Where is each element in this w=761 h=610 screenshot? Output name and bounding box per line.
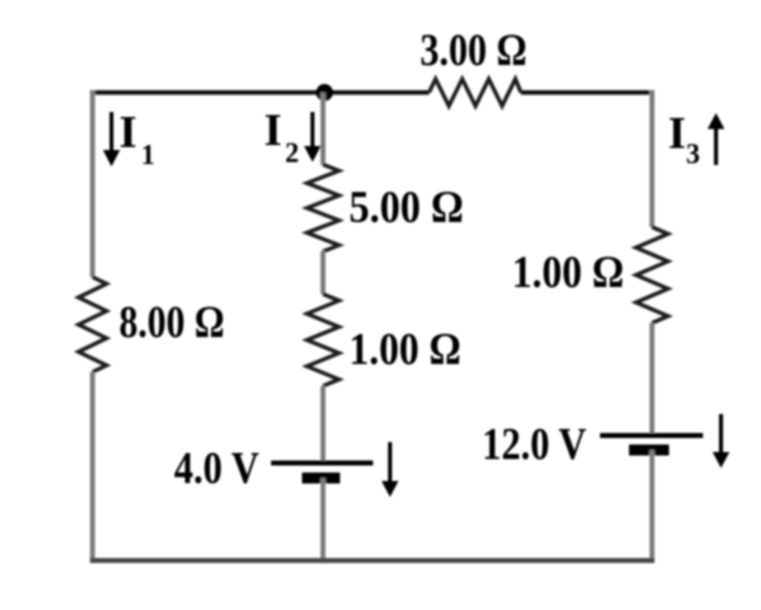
svg-text:I: I — [119, 106, 137, 157]
current direction arrow at battery V2 — [713, 414, 730, 468]
wire right below battery — [650, 450, 655, 561]
svg-text:2: 2 — [285, 138, 299, 169]
current direction arrow at battery V1 — [382, 442, 399, 497]
wire middle between resistors — [321, 251, 326, 294]
wire middle below battery — [321, 478, 326, 563]
resistor 5.00 ohm (middle branch) — [307, 165, 339, 252]
svg-text:I: I — [264, 104, 282, 155]
current arrow I3 — [708, 113, 725, 165]
wire right between resistor and battery — [650, 323, 655, 435]
svg-text:5.00 Ω: 5.00 Ω — [349, 182, 464, 233]
label I1 — [119, 106, 155, 171]
resistor R1 8.00 ohm (left branch) — [79, 277, 107, 372]
svg-text:4.0 V: 4.0 V — [174, 443, 259, 494]
current arrow I1 — [103, 112, 120, 167]
current arrow I2 — [304, 112, 321, 162]
wire middle segment (node to 5 ohm resistor) — [321, 93, 326, 166]
wire right upper segment — [650, 90, 655, 227]
wire middle above battery — [321, 386, 326, 463]
svg-text:3: 3 — [686, 139, 700, 170]
battery V2 12.0 V negative plate — [629, 445, 669, 456]
resistor 1.00 ohm (middle branch) — [307, 294, 339, 386]
resistor 1.00 ohm (right branch) — [636, 227, 668, 323]
label I3 — [668, 107, 700, 170]
svg-text:1: 1 — [141, 140, 155, 171]
wire bottom — [90, 558, 655, 563]
battery V2 12.0 V positive plate — [600, 433, 703, 438]
node A (junction dot) — [316, 84, 333, 101]
svg-text:1.00 Ω: 1.00 Ω — [512, 248, 624, 298]
resistor 3.00 ohm (top) — [429, 79, 521, 106]
battery V1 4.0 V positive plate — [271, 461, 373, 466]
svg-text:12.0 V: 12.0 V — [482, 419, 587, 470]
svg-text:I: I — [668, 107, 686, 158]
label I2 — [264, 104, 299, 169]
svg-text:8.00 Ω: 8.00 Ω — [119, 298, 225, 348]
svg-text:1.00 Ω: 1.00 Ω — [349, 325, 461, 375]
wire left upper segment — [90, 90, 95, 277]
svg-text:3.00 Ω: 3.00 Ω — [420, 25, 527, 76]
wire top-right segment (resistor to right corner) — [521, 90, 654, 95]
battery V1 4.0 V negative plate — [302, 473, 340, 484]
wire top-left segment (node A to left corner) — [91, 90, 429, 95]
wire left lower segment — [90, 372, 95, 561]
